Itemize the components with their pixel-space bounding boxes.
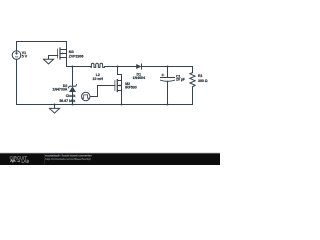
wire M3 drain column (66, 42, 68, 67)
wire M2 vertical (121, 75, 123, 105)
svg-text:20 µF: 20 µF (176, 78, 186, 82)
wire D1 to C1 to R1 (142, 66, 193, 68)
svg-text:10 mH: 10 mH (93, 77, 104, 81)
wire mid rail M3 to L2 (67, 66, 92, 68)
ground at bottom rail (49, 105, 59, 114)
ground at M3 gate (43, 56, 53, 64)
resistor R1 (190, 73, 195, 87)
capacitor C1 (161, 77, 175, 79)
wire bottom rail (17, 104, 193, 106)
svg-text:300 Ω: 300 Ω (198, 79, 208, 83)
wire top rail (17, 41, 67, 43)
inductor L2 (91, 63, 105, 67)
wire R1 column (192, 67, 194, 105)
mosfet M3 ZVP2306 (57, 49, 59, 58)
svg-text:1N4004: 1N4004 (133, 76, 145, 80)
diode D1 1N4004 (136, 64, 141, 69)
svg-text:IRF530: IRF530 (125, 86, 137, 90)
svg-text:LAB: LAB (21, 159, 29, 164)
mosfet M3 gate wire (49, 55, 58, 57)
svg-text:5 V: 5 V (22, 54, 28, 58)
footer bar (0, 154, 220, 166)
svg-text:1N4733A: 1N4733A (53, 87, 68, 91)
wire C1 branch (167, 67, 169, 105)
wire left column (16, 42, 18, 105)
clock source (82, 92, 91, 101)
wire D2 branch (72, 67, 74, 105)
voltage source V1 (12, 51, 21, 60)
wire clock to M2 gate (90, 86, 115, 97)
wire M2 drain jog (118, 67, 122, 75)
svg-text:http://circuitlab.com/c/f9as25: http://circuitlab.com/c/f9as25sz3q/ (45, 157, 91, 161)
svg-text:56.67 kHz: 56.67 kHz (59, 99, 75, 103)
svg-text:R1: R1 (198, 74, 203, 78)
svg-text:M3: M3 (69, 50, 74, 54)
junction node dots (72, 66, 74, 68)
svg-text:ZVP2306: ZVP2306 (69, 55, 84, 59)
svg-text:Clock: Clock (66, 94, 76, 98)
wire L2 to D1 (105, 66, 137, 68)
mosfet M2 IRF530 (114, 81, 116, 91)
zener diode D2 1N4733A (68, 85, 76, 88)
CircuitLab logo (10, 155, 30, 163)
